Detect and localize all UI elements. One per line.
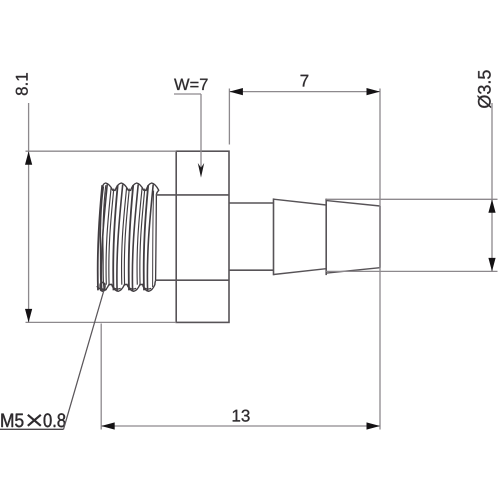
barb cone 2 — [326, 199, 380, 276]
dimension 13 extension line left — [100, 324, 102, 430]
dimension 8.1 text — [16, 73, 28, 95]
barb cone 1 — [274, 198, 327, 275]
dimension 13 line — [101, 425, 380, 427]
dimension 3.5 extension lines — [326, 199, 497, 271]
dimension 8.1 extension lines — [26, 151, 177, 322]
label M5x0.8 underline and leader — [0, 289, 104, 429]
label M5x0.8 leader hook at thread — [100, 282, 106, 290]
dimension 7 line — [229, 91, 380, 93]
dimension 7 arrows — [229, 88, 380, 95]
dimension 13 text — [233, 410, 250, 422]
dimension 8.1 line — [28, 103, 30, 322]
dimension 13 arrows — [101, 422, 380, 429]
hex flat edges — [176, 195, 229, 280]
dimension 7/13 extension line right (barb tip) — [379, 89, 381, 430]
neck cylinder — [229, 203, 274, 270]
label W=7 arrowhead — [198, 163, 204, 178]
dimension 3.5 arrows — [488, 199, 495, 271]
label M5x0.8 text — [1, 413, 65, 427]
label W=7 text — [174, 79, 207, 90]
thread M5 profile — [97, 183, 159, 291]
shank between thread and hex — [156, 195, 176, 280]
barb tip end face — [379, 206, 381, 268]
dimension 8.1 arrows — [25, 151, 32, 322]
label W=7 leader — [174, 94, 201, 172]
dimension 3.5 text — [478, 70, 491, 108]
dimension 3.5 line — [491, 103, 493, 271]
dimension 7 text — [301, 75, 309, 87]
hex body W=7 outline — [176, 151, 229, 322]
dimension 7 extension line left — [228, 89, 230, 145]
